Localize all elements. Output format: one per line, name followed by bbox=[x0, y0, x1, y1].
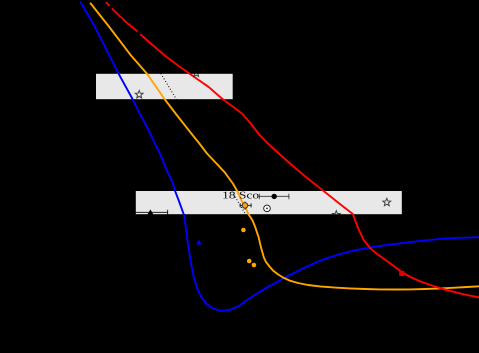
open star marker lower band right bbox=[383, 198, 391, 205]
dotted model line bbox=[152, 58, 254, 228]
blue triangle marker bbox=[196, 240, 202, 245]
orange marker (18 Sco) with errorbar bbox=[240, 202, 251, 210]
open star marker clipped at lower band bottom edge bbox=[332, 211, 340, 218]
upper shaded band bbox=[96, 74, 233, 99]
orange curve bbox=[91, 3, 479, 289]
red square marker bbox=[399, 271, 404, 276]
sun symbol bbox=[264, 205, 271, 212]
black point with x errorbar bbox=[259, 194, 289, 200]
small orange dot 1 bbox=[241, 228, 246, 233]
open star marker upper band bbox=[135, 91, 143, 98]
small orange dot 2 bbox=[247, 259, 252, 264]
lower shaded band bbox=[136, 191, 402, 214]
open star marker at top edge of upper band bbox=[192, 69, 200, 76]
small orange dot 3 bbox=[252, 263, 257, 268]
red curve bbox=[106, 3, 479, 298]
black triangle marker with x errorbar (lower band left) bbox=[130, 209, 168, 215]
blue curve bbox=[81, 2, 479, 311]
red dash gaps near top bbox=[110, 6, 141, 34]
18 Sco label bbox=[223, 192, 258, 199]
